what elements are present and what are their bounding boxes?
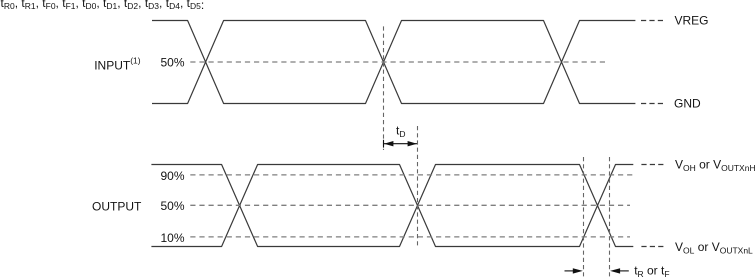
svg-text:OUTPUT: OUTPUT <box>92 199 142 213</box>
svg-text:10%: 10% <box>160 231 184 245</box>
svg-text:tR0, tR1, tF0, tF1, tD0, tD1,: tR0, tR1, tF0, tF1, tD0, tD1, tD2, tD3, … <box>1 0 205 12</box>
svg-text:GND: GND <box>674 97 701 111</box>
svg-text:50%: 50% <box>160 199 184 213</box>
svg-text:50%: 50% <box>160 56 184 70</box>
svg-text:INPUT(1): INPUT(1) <box>94 56 141 73</box>
svg-text:tR or tF: tR or tF <box>634 264 669 279</box>
svg-text:90%: 90% <box>160 169 184 183</box>
svg-text:VREG: VREG <box>675 14 709 28</box>
svg-text:VOH or VOUTXnH: VOH or VOUTXnH <box>675 157 756 173</box>
svg-text:tD: tD <box>396 124 405 139</box>
svg-text:VOL or VOUTXnL: VOL or VOUTXnL <box>675 240 753 256</box>
